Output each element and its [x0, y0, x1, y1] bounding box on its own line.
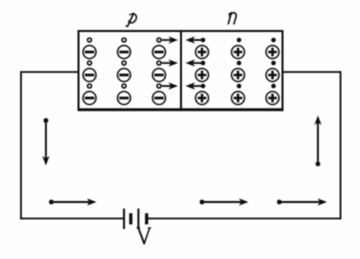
battery V: short plate 1 [129, 213, 132, 224]
donor ion (circled plus) n region col 1 row 1 [196, 46, 209, 59]
node dot, right rail [316, 162, 321, 167]
acceptor ion (circled minus) p region col 2 row 2 [118, 69, 131, 82]
node dot, bottom rail left [49, 200, 54, 205]
electron (filled dot) n region col 1 row 1 [201, 38, 206, 43]
p-n junction diode body (outer box) [78, 30, 284, 111]
electron (filled dot) n region col 3 row 1 [271, 38, 276, 43]
electron (filled dot) n region col 3 row 3 [271, 84, 276, 89]
wire: bottom rail right of battery [147, 218, 341, 220]
donor ion (circled plus) n region col 3 row 3 [266, 92, 279, 105]
donor ion (circled plus) n region col 2 row 3 [232, 92, 245, 105]
electron (filled dot) n region col 2 row 2 [237, 61, 242, 66]
electron (filled dot) n region col 2 row 1 [237, 38, 242, 43]
hole (open circle) p region col 2 row 3 [122, 84, 126, 88]
p-type region label p [126, 13, 136, 26]
node dot, bottom rail right [277, 200, 282, 205]
acceptor ion (circled minus) p region col 3 row 2 [153, 69, 166, 82]
battery value label V [137, 228, 151, 244]
electron drift arrow toward junction, n row 1 [192, 39, 204, 41]
electron (filled dot) n region col 3 row 2 [271, 61, 276, 66]
donor ion (circled plus) n region col 2 row 1 [232, 46, 245, 59]
acceptor ion (circled minus) p region col 2 row 1 [118, 46, 131, 59]
wire: right rail to box right terminal [283, 71, 341, 73]
wire: box left terminal to left rail [21, 71, 79, 73]
battery V: long plate 2 [137, 209, 139, 230]
junction divider between p and n regions [180, 31, 182, 110]
battery V: long plate 1 [123, 209, 125, 230]
acceptor ion (circled minus) p region col 2 row 3 [118, 92, 131, 105]
acceptor ion (circled minus) p region col 1 row 2 [83, 69, 96, 82]
acceptor ion (circled minus) p region col 1 row 3 [83, 92, 96, 105]
hole (open circle) p region col 2 row 1 [122, 38, 126, 42]
donor ion (circled plus) n region col 2 row 2 [232, 69, 245, 82]
hole (open circle) p region col 3 row 3 [157, 84, 161, 88]
acceptor ion (circled minus) p region col 3 row 3 [153, 92, 166, 105]
hole (open circle) p region col 1 row 1 [88, 38, 92, 42]
current arrow right, bottom rail left [51, 201, 90, 203]
battery V: short plate 2 [145, 213, 148, 224]
electron (filled dot) n region col 2 row 3 [237, 84, 242, 89]
current arrow right, bottom rail middle [202, 201, 242, 203]
electron (filled dot) n region col 1 row 2 [201, 61, 206, 66]
hole (open circle) p region col 2 row 2 [122, 61, 126, 65]
electron (filled dot) n region col 1 row 3 [201, 84, 206, 89]
hole (open circle) p region col 1 row 3 [88, 84, 92, 88]
donor ion (circled plus) n region col 3 row 2 [266, 69, 279, 82]
node dot, bottom rail middle [200, 200, 205, 205]
hole drift arrow toward junction, p row 1 [162, 39, 172, 41]
acceptor ion (circled minus) p region col 1 row 1 [83, 46, 96, 59]
hole drift arrow toward junction, p row 2 [162, 62, 172, 64]
electron drift arrow toward junction, n row 2 [192, 62, 204, 64]
acceptor ion (circled minus) p region col 3 row 1 [153, 46, 166, 59]
wire: right rail vertical [340, 71, 342, 219]
electron drift arrow toward junction, n row 3 [192, 85, 204, 87]
wire: left rail vertical [20, 71, 22, 219]
n-type region label n [228, 13, 236, 24]
donor ion (circled plus) n region col 1 row 3 [196, 92, 209, 105]
current arrow down, left rail [45, 121, 47, 160]
node dot, left rail [44, 118, 49, 123]
donor ion (circled plus) n region col 3 row 1 [266, 46, 279, 59]
hole (open circle) p region col 3 row 1 [157, 38, 161, 42]
hole drift arrow toward junction, p row 3 [162, 85, 172, 87]
current arrow up, right rail [317, 122, 319, 164]
donor ion (circled plus) n region col 1 row 2 [196, 69, 209, 82]
hole (open circle) p region col 1 row 2 [88, 61, 92, 65]
current arrow right, bottom rail right [279, 201, 321, 203]
wire: bottom rail left of battery [20, 218, 124, 220]
hole (open circle) p region col 3 row 2 [157, 61, 161, 65]
